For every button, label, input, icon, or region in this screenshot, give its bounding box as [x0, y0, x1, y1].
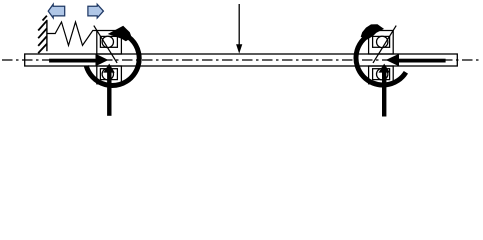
bearing B top inner race rect — [373, 36, 390, 47]
spring (between wall and left bearing housing) — [47, 22, 97, 45]
bearing A top ball — [102, 36, 113, 47]
bearing A housing (left) top box — [97, 31, 122, 55]
moment arrow at bearing A (counter-clockwise ring) — [86, 33, 139, 86]
centerline (shaft axis, dash-dot) — [2, 59, 480, 61]
bearing B bottom box — [369, 66, 394, 84]
radial reaction arrow at bearing B (thick, pointing up) — [379, 64, 391, 117]
bearing A contact-angle diagonal — [94, 26, 117, 63]
bearing B housing (right) top box — [369, 31, 394, 55]
bearing B bottom ball — [377, 68, 388, 79]
bearing B top ball — [377, 36, 388, 47]
moment arrow at bearing B (clockwise ring) — [356, 34, 406, 85]
moment arrow B head — [361, 24, 384, 39]
wall (fixed support, hatched) — [38, 16, 47, 53]
axial force arrow at bearing B (thick, pointing left) — [386, 54, 446, 66]
bearing B bottom inner race rect — [373, 69, 390, 80]
bearing A bottom box — [97, 66, 122, 84]
axial force arrow at bearing A (thick, pointing right) — [49, 54, 108, 66]
moment arrow A head — [108, 26, 132, 41]
bearing A top inner race rect — [100, 36, 117, 47]
bearing A bottom ball — [102, 68, 113, 79]
shaft — [25, 54, 458, 66]
blue arrow right (axial play, pointing right) — [88, 4, 104, 18]
radial reaction arrow at bearing A (thick, pointing up) — [103, 64, 115, 116]
radial load arrow at center (thin, pointing down onto shaft) — [236, 4, 242, 54]
bearing B contact-angle diagonal — [373, 26, 396, 63]
blue arrow left (axial play, pointing left) — [48, 4, 64, 18]
bearing A bottom inner race rect — [100, 69, 117, 80]
